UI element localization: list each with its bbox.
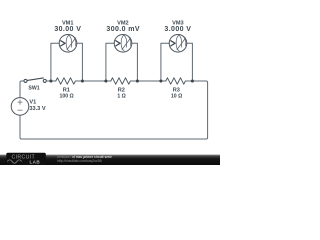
svg-text:33.3 V: 33.3 V <box>29 106 45 112</box>
svg-text:10 Ω: 10 Ω <box>171 93 182 99</box>
wire R2 right lead to R3 left lead <box>130 80 165 82</box>
voltmeter VM1 left vertical wire <box>51 43 59 81</box>
voltmeter VM2 inner glyph <box>116 35 131 51</box>
svg-text:3.000 V: 3.000 V <box>164 26 191 33</box>
node junction R1 right <box>81 79 84 82</box>
svg-text:SW1: SW1 <box>28 85 39 91</box>
wire R3 right lead to top-right corner <box>185 81 207 83</box>
wire switch to R1 left node <box>46 80 55 82</box>
switch SW1 lever (closed) <box>27 78 43 81</box>
voltmeter VM2 left vertical wire <box>106 43 114 81</box>
switch SW1 terminal 1 <box>24 79 27 82</box>
svg-text:V1: V1 <box>29 100 36 106</box>
wire left rail bottom up to V1 minus terminal <box>19 115 21 137</box>
voltmeter VM2 right vertical wire <box>132 43 138 81</box>
node junction R1 left <box>49 79 52 82</box>
voltage source V1 circle <box>11 98 29 116</box>
footer logo badge <box>6 153 46 165</box>
footer bar <box>0 155 220 165</box>
svg-text:300.0 mV: 300.0 mV <box>106 26 140 33</box>
logo sine wave <box>7 160 21 163</box>
svg-text:1 Ω: 1 Ω <box>117 93 126 99</box>
wire bottom rail <box>20 138 206 140</box>
wire left rail top: V1 plus terminal up to switch level <box>20 81 24 98</box>
node junction R2 left <box>104 79 107 82</box>
wire right rail down <box>206 83 208 140</box>
voltmeter VM3 inner glyph <box>171 35 186 51</box>
resistor R2 body <box>111 78 131 84</box>
voltage source V1 plus sign <box>18 100 22 104</box>
switch SW1 terminal 2 <box>43 79 46 82</box>
wire R1 right lead to R2 left lead <box>75 80 110 82</box>
node junction R3 right <box>191 79 194 82</box>
resistor R3 body <box>166 78 186 84</box>
resistor R1 body <box>56 78 76 84</box>
svg-text:LAB: LAB <box>29 159 40 164</box>
svg-text:100 Ω: 100 Ω <box>59 93 73 99</box>
node junction R3 left <box>159 79 162 82</box>
voltmeter VM3 left vertical wire <box>161 43 169 81</box>
voltmeter VM3 circle <box>169 35 187 53</box>
voltmeter VM3 right vertical wire <box>187 43 193 81</box>
voltmeter VM1 circle <box>59 35 77 53</box>
voltmeter VM1 inner glyph <box>61 35 76 51</box>
svg-text:http://circuitlab.com/cwq2sx36: http://circuitlab.com/cwq2sx36/ <box>57 159 102 163</box>
voltage source V1 minus sign <box>18 109 22 111</box>
voltmeter VM1 right vertical wire <box>77 43 83 81</box>
svg-text:30.00 V: 30.00 V <box>54 26 81 33</box>
voltmeter VM2 circle <box>114 35 132 53</box>
node junction R2 right <box>136 79 139 82</box>
